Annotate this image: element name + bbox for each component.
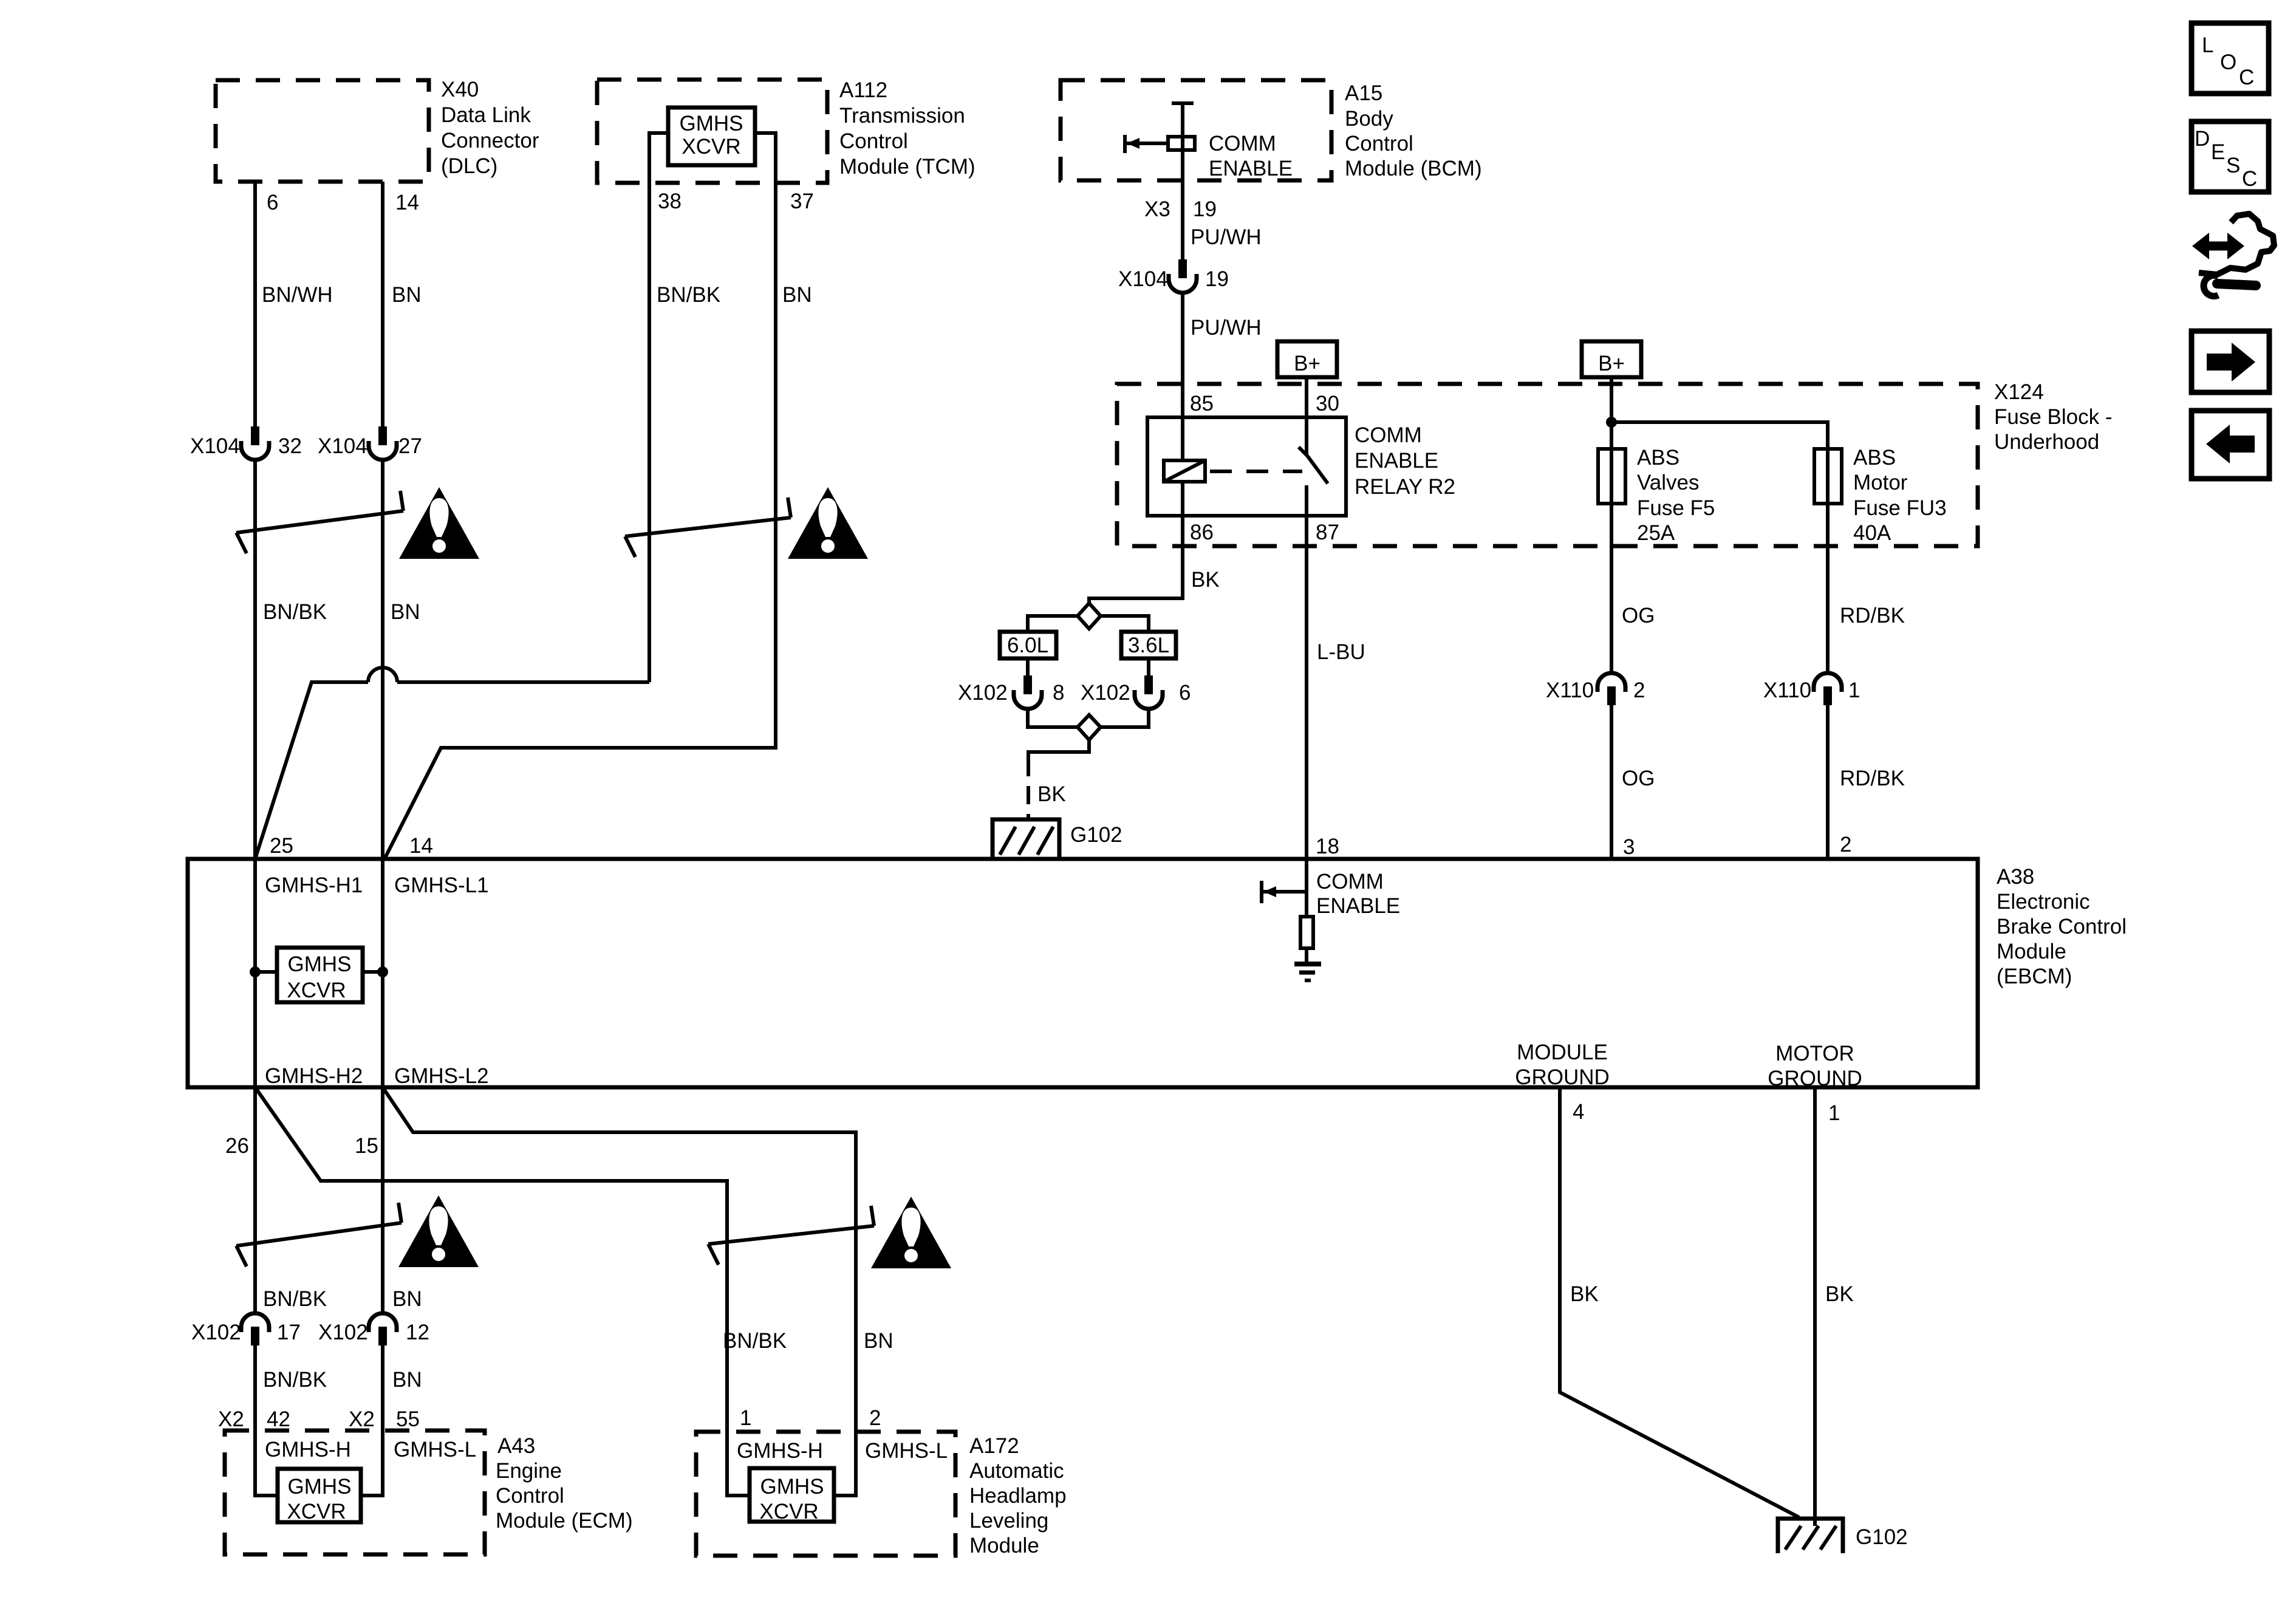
6.0L tag box <box>1000 632 1056 658</box>
connector X104 pin 27 <box>378 426 387 445</box>
svg-text:55: 55 <box>396 1407 420 1431</box>
svg-text:GMHS-L: GMHS-L <box>394 1438 476 1461</box>
svg-text:Connector: Connector <box>441 129 539 152</box>
svg-text:15: 15 <box>355 1134 378 1158</box>
svg-text:19: 19 <box>1205 267 1229 291</box>
svg-text:85: 85 <box>1190 392 1214 415</box>
svg-text:GMHS: GMHS <box>288 1475 352 1499</box>
wire B+2 down through fuse F5 <box>1610 377 1613 673</box>
svg-text:Data Link: Data Link <box>441 103 531 127</box>
svg-text:GMHS: GMHS <box>680 112 743 135</box>
wire 6.0L to X102-8 <box>1026 658 1030 675</box>
svg-text:Leveling: Leveling <box>969 1509 1048 1533</box>
connector X104 pin 19 <box>1178 259 1187 278</box>
svg-text:1: 1 <box>1828 1101 1840 1125</box>
svg-text:86: 86 <box>1190 521 1214 544</box>
module A15 BCM dashed box <box>1061 80 1331 180</box>
svg-text:BK: BK <box>1570 1282 1599 1306</box>
svg-text:X104: X104 <box>190 434 240 458</box>
wire X102-8 to lower diamond <box>1028 708 1078 727</box>
svg-text:19: 19 <box>1193 197 1217 221</box>
svg-text:25: 25 <box>270 834 293 858</box>
svg-text:L: L <box>2202 33 2213 57</box>
twisted pair slash (A172 wires) <box>708 1226 874 1244</box>
svg-text:B+: B+ <box>1294 352 1321 375</box>
wire BN from X104-27 to EBCM pin 14 <box>381 459 384 859</box>
svg-text:40A: 40A <box>1853 521 1891 545</box>
wire GMHS-H inside EBCM <box>253 859 257 1087</box>
wire B+ to relay pin 30 <box>1305 377 1308 456</box>
ground G102 (engine splice) <box>993 819 1059 858</box>
wire PU/WH from X104-19 to relay coil 85 <box>1181 292 1184 460</box>
svg-text:Control: Control <box>496 1484 564 1508</box>
svg-text:O: O <box>2220 50 2236 74</box>
icon arrow next box <box>2192 331 2269 392</box>
wire X102-6 to lower diamond <box>1101 708 1149 727</box>
svg-text:Motor: Motor <box>1853 471 1908 494</box>
fuse FU3 40A <box>1814 449 1842 504</box>
svg-text:Module (TCM): Module (TCM) <box>839 155 975 179</box>
svg-text:BN/BK: BN/BK <box>263 1287 327 1311</box>
fuse block X124 dashed box <box>1117 384 1978 546</box>
svg-text:PU/WH: PU/WH <box>1191 316 1262 340</box>
GMHS XCVR box (A172) <box>750 1468 834 1522</box>
svg-text:X124: X124 <box>1994 380 2044 404</box>
GMHS XCVR box (ECM) <box>278 1469 361 1522</box>
svg-text:C: C <box>2242 167 2257 191</box>
connector X102 pin 12 <box>369 1313 397 1332</box>
svg-text:17: 17 <box>277 1321 301 1344</box>
3.6L tag box <box>1121 632 1176 658</box>
svg-text:3.6L: 3.6L <box>1128 634 1169 657</box>
wire BN/BK from X104-32 to EBCM pin 25 <box>253 459 257 859</box>
svg-text:Electronic: Electronic <box>1997 890 2090 914</box>
power feed B+ box 2 <box>1582 341 1641 377</box>
svg-text:X40: X40 <box>441 78 479 101</box>
svg-text:GMHS-H: GMHS-H <box>737 1439 823 1463</box>
svg-text:GMHS: GMHS <box>288 952 352 976</box>
svg-text:(DLC): (DLC) <box>441 154 497 178</box>
connector X104 pin 32 <box>251 426 259 445</box>
svg-text:BK: BK <box>1825 1282 1854 1306</box>
svg-text:OG: OG <box>1622 604 1655 627</box>
warning triangle 1 <box>399 487 479 559</box>
icon arrow prev box <box>2192 411 2269 479</box>
svg-text:XCVR: XCVR <box>287 979 346 1002</box>
svg-text:BN: BN <box>392 1287 422 1311</box>
svg-text:GMHS: GMHS <box>760 1475 824 1499</box>
svg-text:6: 6 <box>1179 681 1191 705</box>
svg-text:12: 12 <box>406 1321 429 1344</box>
junction node H <box>250 966 261 977</box>
splice diamond upper <box>1078 603 1101 629</box>
wire resistor to internal ground <box>1305 948 1308 963</box>
wire GMHS-H2 to ECM (BN/BK) <box>253 1087 257 1313</box>
twisted pair slash (TCM wires) <box>625 518 791 536</box>
wire GMHS-L inside EBCM <box>381 859 384 1087</box>
svg-text:GMHS-H: GMHS-H <box>265 1438 351 1461</box>
svg-text:COMM: COMM <box>1355 423 1422 447</box>
connector X40 Data Link Connector (DLC) dashed box <box>216 80 429 182</box>
icon DESC box <box>2192 121 2269 192</box>
svg-text:GMHS-L: GMHS-L <box>865 1439 948 1463</box>
svg-text:XCVR: XCVR <box>287 1500 346 1523</box>
svg-text:MODULE: MODULE <box>1517 1041 1608 1064</box>
svg-text:XCVR: XCVR <box>682 135 740 159</box>
svg-text:3: 3 <box>1623 835 1635 859</box>
svg-text:1: 1 <box>740 1406 751 1430</box>
svg-text:87: 87 <box>1316 521 1339 544</box>
wire OG to EBCM pin 3 <box>1610 705 1613 859</box>
svg-text:X2: X2 <box>218 1407 244 1431</box>
connector X102 pin 8 <box>1023 675 1032 694</box>
svg-text:(EBCM): (EBCM) <box>1997 965 2072 988</box>
svg-text:A43: A43 <box>497 1434 535 1458</box>
svg-text:PU/WH: PU/WH <box>1191 225 1262 249</box>
svg-text:GROUND: GROUND <box>1515 1065 1610 1089</box>
svg-text:14: 14 <box>395 191 419 214</box>
connector X110 pin 1 <box>1814 673 1842 692</box>
connector X110 pin 2 <box>1597 673 1625 692</box>
svg-text:GMHS-L1: GMHS-L1 <box>394 873 489 897</box>
svg-text:38: 38 <box>658 190 682 213</box>
svg-text:RELAY R2: RELAY R2 <box>1355 475 1455 499</box>
icon wiring harness / wrench <box>2192 214 2274 296</box>
svg-text:ABS: ABS <box>1637 446 1679 470</box>
relay coil <box>1164 460 1205 482</box>
svg-text:25A: 25A <box>1637 521 1675 545</box>
svg-text:Engine: Engine <box>496 1459 562 1483</box>
svg-text:27: 27 <box>398 434 422 458</box>
svg-text:BN/WH: BN/WH <box>262 283 333 307</box>
GMHS XCVR box (TCM) <box>668 108 755 165</box>
svg-text:30: 30 <box>1316 392 1339 415</box>
svg-text:X102: X102 <box>958 681 1008 705</box>
svg-text:B+: B+ <box>1598 352 1625 375</box>
wire 3.6L to X102-6 <box>1147 658 1150 675</box>
svg-text:GROUND: GROUND <box>1768 1067 1862 1090</box>
twisted pair slash (DLC wires) <box>236 511 403 533</box>
svg-text:ENABLE: ENABLE <box>1209 157 1293 180</box>
GMHS XCVR box (EBCM) <box>277 948 363 1002</box>
svg-text:BN: BN <box>391 600 420 624</box>
svg-text:L-BU: L-BU <box>1317 640 1365 664</box>
svg-text:D: D <box>2195 127 2210 151</box>
fuse F5 25A <box>1598 449 1625 504</box>
svg-text:Brake Control: Brake Control <box>1997 915 2127 938</box>
svg-text:Transmission: Transmission <box>839 104 965 128</box>
svg-text:OG: OG <box>1622 767 1655 790</box>
svg-text:BN: BN <box>392 1368 422 1392</box>
svg-text:2: 2 <box>869 1406 881 1430</box>
module A43 ECM dashed box <box>225 1431 485 1554</box>
svg-text:X110: X110 <box>1763 679 1811 702</box>
svg-text:Headlamp: Headlamp <box>969 1484 1067 1508</box>
splice diamond lower <box>1078 715 1101 740</box>
svg-text:Fuse FU3: Fuse FU3 <box>1853 496 1947 520</box>
COMM ENABLE driver symbol inside BCM <box>1172 101 1194 105</box>
wire relay 86 BK down-left to splice diamond <box>1089 482 1183 603</box>
svg-text:RD/BK: RD/BK <box>1840 604 1905 627</box>
svg-text:RD/BK: RD/BK <box>1840 767 1905 790</box>
svg-text:4: 4 <box>1573 1100 1584 1124</box>
svg-text:ENABLE: ENABLE <box>1316 894 1400 918</box>
resistor (EBCM terminating) <box>1300 917 1313 948</box>
svg-text:BK: BK <box>1191 568 1220 592</box>
svg-text:A172: A172 <box>969 1434 1019 1458</box>
svg-text:ABS: ABS <box>1853 446 1896 470</box>
svg-text:Module (ECM): Module (ECM) <box>496 1509 633 1533</box>
power feed B+ box 1 <box>1277 341 1337 377</box>
wire stubs to XCVR <box>255 970 277 974</box>
svg-text:14: 14 <box>409 834 433 858</box>
svg-text:G102: G102 <box>1856 1525 1908 1549</box>
wire GMHS-L2 to ECM (BN) <box>381 1087 384 1313</box>
wire DLC pin 6 BN/WH down to X104-32 <box>253 182 257 426</box>
svg-text:BN/BK: BN/BK <box>723 1329 787 1353</box>
module A38 EBCM box <box>188 859 1978 1087</box>
svg-text:Control: Control <box>839 129 908 153</box>
icon LOC box <box>2192 23 2269 94</box>
svg-text:Body: Body <box>1345 107 1393 131</box>
svg-text:ENABLE: ENABLE <box>1355 449 1438 473</box>
svg-text:X104: X104 <box>1118 267 1168 291</box>
twisted pair slash (ECM wires) <box>236 1223 401 1246</box>
svg-text:2: 2 <box>1840 833 1851 856</box>
wire BK to ground G102 (partial dashed) <box>1028 740 1089 758</box>
wire pin 15 diagonal to A172 pin2 <box>383 1087 856 1496</box>
svg-text:X2: X2 <box>349 1407 375 1431</box>
svg-text:X110: X110 <box>1546 679 1594 702</box>
wire TCM pin 37 BN down, left, diagonal to EBCM pin 14 <box>384 133 776 859</box>
wire branch to fuse FU3 <box>1611 422 1828 673</box>
svg-text:BN: BN <box>864 1329 893 1353</box>
wire BK motor ground pin 1 to G102 <box>1813 1087 1817 1526</box>
svg-text:Module: Module <box>1997 940 2066 963</box>
relay coil-switch dashed link <box>1210 470 1302 473</box>
svg-text:26: 26 <box>225 1134 249 1158</box>
svg-text:BN/BK: BN/BK <box>657 283 720 307</box>
internal ground symbol <box>1294 962 1321 966</box>
svg-text:Module: Module <box>969 1534 1039 1557</box>
svg-text:XCVR: XCVR <box>759 1500 818 1523</box>
svg-text:BN/BK: BN/BK <box>263 1368 327 1392</box>
wire RD/BK to EBCM pin 2 <box>1826 705 1830 859</box>
svg-text:G102: G102 <box>1070 823 1122 847</box>
svg-text:COMM: COMM <box>1316 870 1384 894</box>
svg-text:A112: A112 <box>839 78 887 102</box>
svg-text:BN: BN <box>782 283 812 307</box>
svg-text:S: S <box>2226 154 2240 177</box>
svg-text:X102: X102 <box>191 1321 241 1344</box>
wire pin 26 diagonal to A172 pin1 <box>255 1087 750 1496</box>
module A112 TCM dashed box <box>597 80 827 183</box>
svg-text:Fuse Block -: Fuse Block - <box>1994 405 2113 429</box>
wires X102 to ECM <box>255 1345 278 1496</box>
COMM ENABLE input inside EBCM <box>1305 859 1308 917</box>
svg-text:1: 1 <box>1848 679 1860 702</box>
wire DLC pin 14 BN down to X104-27 <box>381 182 384 426</box>
svg-text:X3: X3 <box>1144 197 1170 221</box>
svg-text:MOTOR: MOTOR <box>1775 1042 1854 1065</box>
svg-text:Valves: Valves <box>1637 471 1699 494</box>
svg-text:GMHS-L2: GMHS-L2 <box>394 1064 489 1088</box>
connector X102 pin 17 <box>241 1313 269 1332</box>
svg-text:6.0L: 6.0L <box>1007 634 1048 657</box>
wire BK module ground pin 4 to G102 <box>1560 1087 1799 1517</box>
svg-text:2: 2 <box>1633 679 1645 702</box>
warning triangle 3 <box>398 1195 479 1267</box>
svg-text:Underhood: Underhood <box>1994 430 2099 454</box>
relay R2 box <box>1147 417 1346 516</box>
svg-text:Module (BCM): Module (BCM) <box>1345 157 1482 180</box>
svg-text:X104: X104 <box>318 434 367 458</box>
wire horizontal run from TCM38 to EBCM pin 25 with hop over BN wire <box>397 680 649 684</box>
svg-text:X102: X102 <box>318 1321 368 1344</box>
connector X102 pin 6 <box>1144 675 1153 694</box>
svg-text:GMHS-H1: GMHS-H1 <box>265 873 363 897</box>
warning triangle 4 <box>871 1197 951 1268</box>
wire relay 87 L-BU down to EBCM pin 18 <box>1305 485 1308 859</box>
svg-text:A15: A15 <box>1345 81 1382 105</box>
warning triangle 2 <box>788 487 868 559</box>
svg-text:18: 18 <box>1316 835 1339 858</box>
svg-text:BN/BK: BN/BK <box>263 600 327 624</box>
wire to 3.6L tag <box>1101 616 1149 632</box>
svg-text:8: 8 <box>1053 681 1064 705</box>
svg-text:COMM: COMM <box>1209 132 1276 156</box>
module A172 Automatic Headlamp Leveling Module dashed box <box>696 1432 955 1556</box>
svg-text:Control: Control <box>1345 132 1413 156</box>
svg-text:C: C <box>2239 66 2254 89</box>
svg-text:37: 37 <box>790 190 814 213</box>
ground G102 (bottom) <box>1778 1519 1843 1553</box>
svg-text:42: 42 <box>267 1407 290 1431</box>
junction node L <box>377 966 388 977</box>
wire TCM pin 38 BN/BK down <box>649 133 668 682</box>
svg-text:Automatic: Automatic <box>969 1459 1064 1483</box>
wire to 6.0L tag <box>1028 616 1078 632</box>
svg-text:32: 32 <box>278 434 302 458</box>
svg-text:GMHS-H2: GMHS-H2 <box>265 1064 363 1088</box>
svg-text:E: E <box>2211 140 2225 164</box>
svg-text:X102: X102 <box>1081 681 1130 705</box>
svg-text:A38: A38 <box>1997 865 2034 889</box>
svg-text:BN: BN <box>392 283 422 307</box>
svg-text:BK: BK <box>1037 782 1066 806</box>
junction node <box>1606 417 1617 428</box>
relay switch blade <box>1299 447 1307 456</box>
svg-text:6: 6 <box>267 191 278 214</box>
svg-text:Fuse F5: Fuse F5 <box>1637 496 1715 520</box>
